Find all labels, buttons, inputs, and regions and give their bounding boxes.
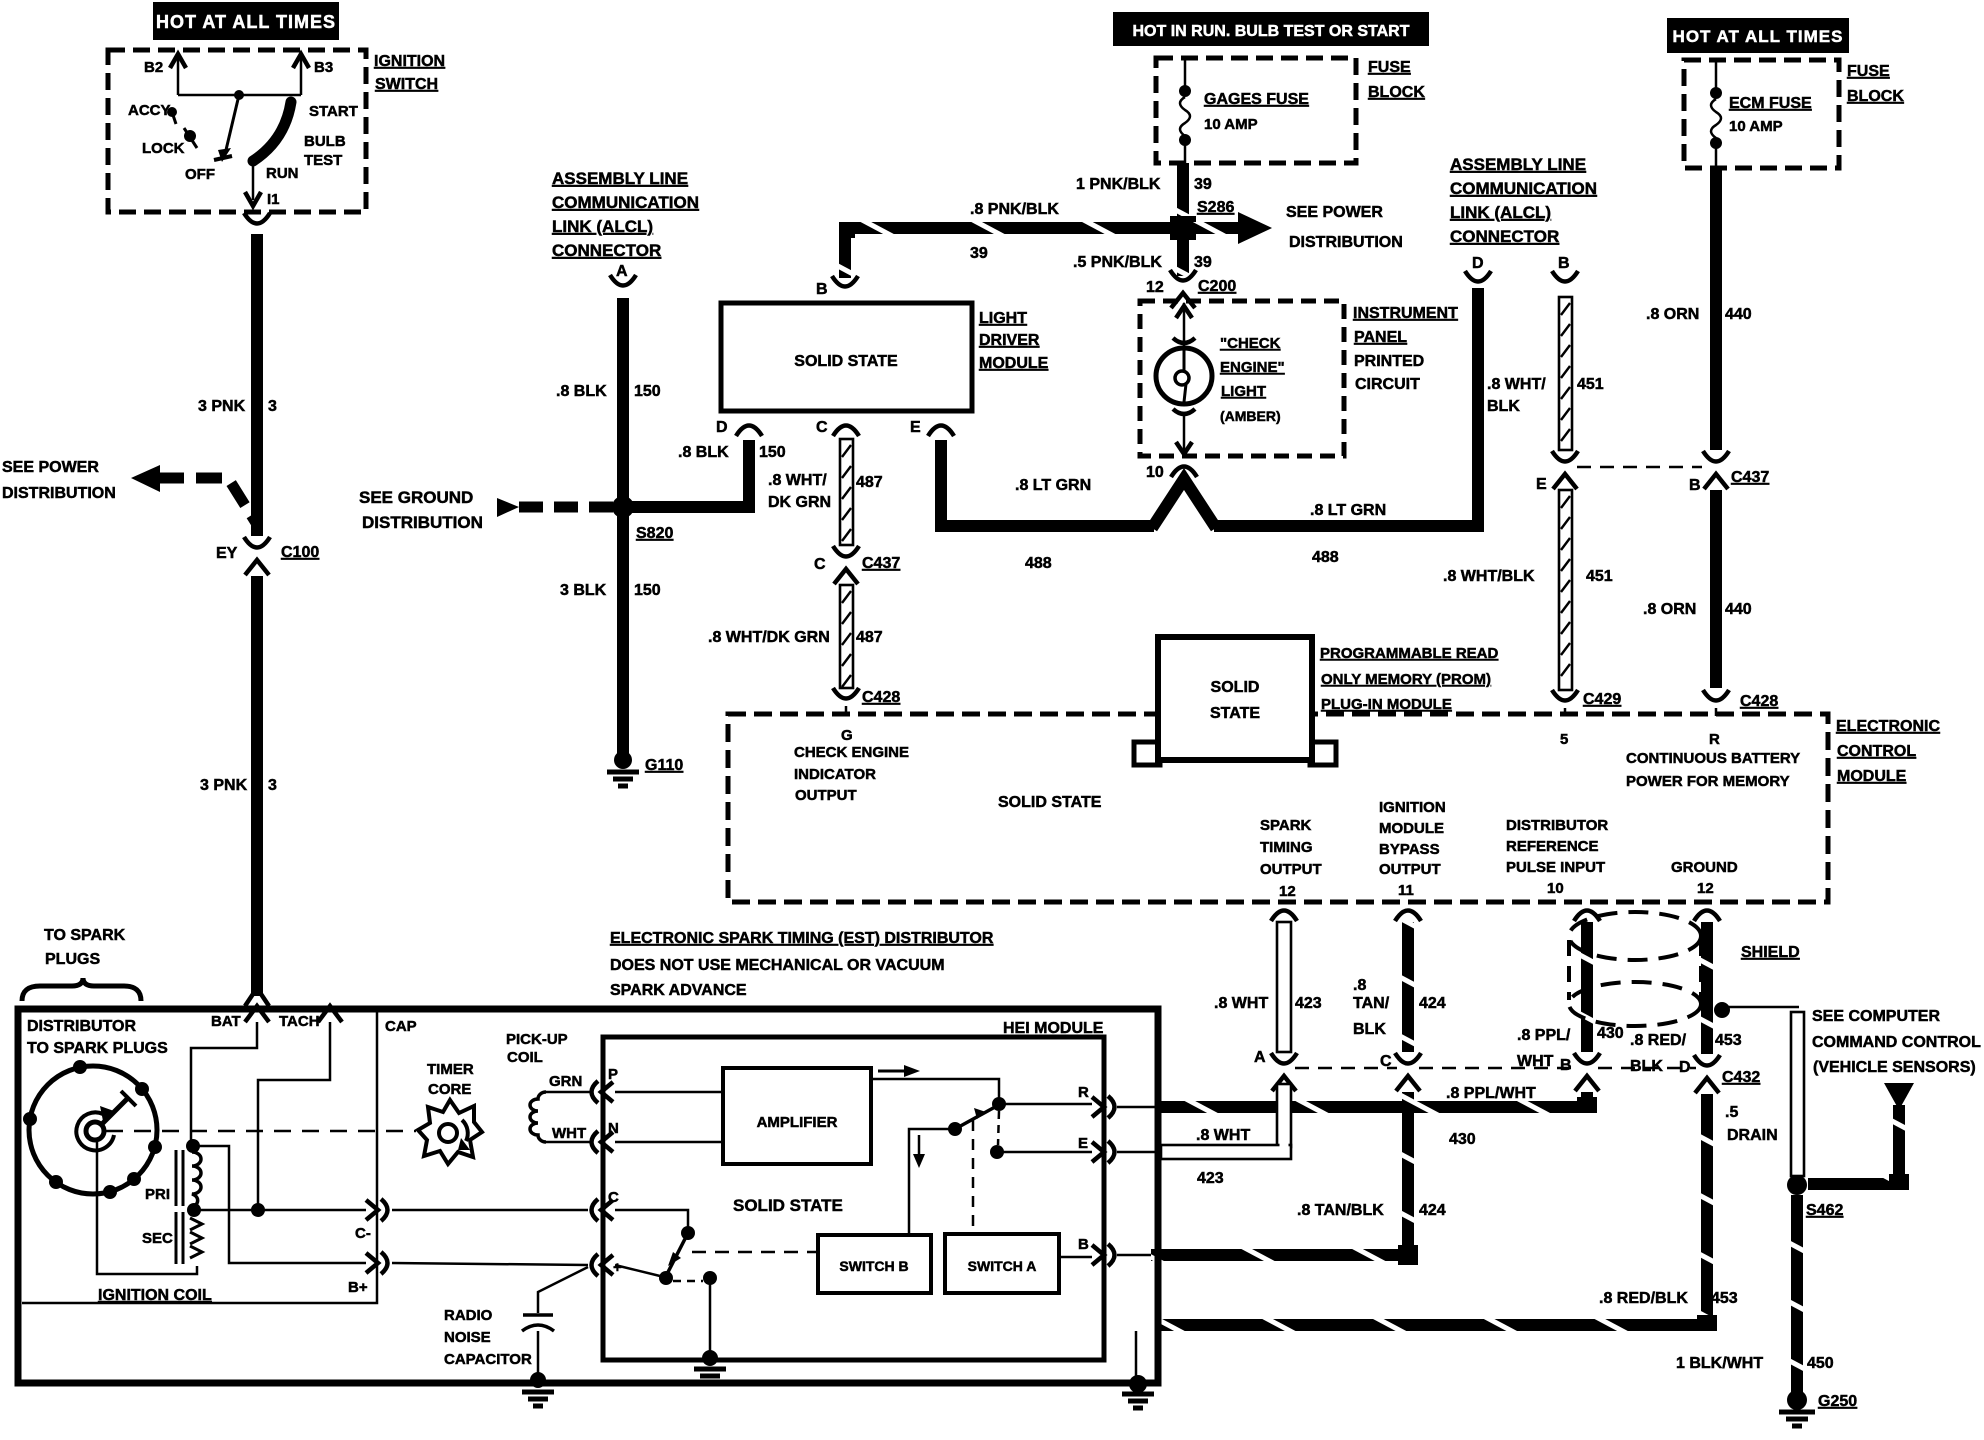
svg-text:HOT IN RUN. BULB TEST OR START: HOT IN RUN. BULB TEST OR START	[1132, 23, 1409, 40]
svg-text:"CHECK: "CHECK	[1220, 335, 1281, 352]
wire .8 PPL/WHT circuit 430 (B to HEI R)	[1581, 1092, 1593, 1113]
wire E contact to E pin	[1002, 1151, 1092, 1154]
wire 3 PNK circuit 3 (ignition to C100)	[251, 234, 263, 536]
connector pin A	[610, 275, 636, 286]
svg-text:3: 3	[268, 398, 277, 415]
connector C100	[244, 537, 270, 548]
svg-text:.8 RED/BLK: .8 RED/BLK	[1599, 1290, 1688, 1307]
svg-text:SOLID STATE: SOLID STATE	[733, 1196, 843, 1215]
svg-text:(VEHICLE SENSORS): (VEHICLE SENSORS)	[1813, 1059, 1976, 1076]
wire S820 to D-pin riser	[623, 440, 749, 507]
svg-text:BLK: BLK	[1353, 1021, 1386, 1038]
svg-text:TO SPARK: TO SPARK	[44, 927, 126, 944]
svg-text:TO SPARK PLUGS: TO SPARK PLUGS	[27, 1040, 168, 1057]
svg-text:B3: B3	[314, 59, 333, 76]
svg-text:TIMING: TIMING	[1260, 839, 1313, 856]
connector C437 pair	[1552, 451, 1578, 462]
svg-text:PULSE INPUT: PULSE INPUT	[1506, 859, 1605, 876]
fuse ECM FUSE 10 AMP symbol	[1715, 60, 1718, 88]
dashed blade to switch B	[692, 1251, 816, 1254]
svg-text:BLOCK: BLOCK	[1847, 88, 1904, 105]
svg-text:B: B	[1689, 477, 1701, 494]
switch arc START-RUN	[253, 102, 291, 161]
wire .8 BLK circuit 150 (A to S820)	[617, 298, 629, 507]
svg-text:.8: .8	[1353, 977, 1366, 994]
wire .8 ORN circuit 440 (C437 to C428)	[1710, 490, 1722, 688]
wire .8 ORN circuit 440 (fuse to C437)	[1710, 168, 1722, 450]
svg-text:430: 430	[1597, 1025, 1624, 1042]
svg-text:.8 BLK: .8 BLK	[556, 383, 607, 400]
rotor arm	[101, 1098, 128, 1125]
svg-text:C: C	[816, 419, 828, 436]
svg-text:POWER FOR MEMORY: POWER FOR MEMORY	[1626, 773, 1790, 790]
svg-text:1 PNK/BLK: 1 PNK/BLK	[1076, 176, 1161, 193]
wire 488 V-split	[1152, 479, 1216, 528]
node R contact	[992, 1097, 1006, 1111]
node shield drain tap	[1714, 1002, 1730, 1018]
switch blade to OFF	[226, 95, 239, 150]
ground G110	[614, 751, 632, 769]
svg-text:WHT: WHT	[552, 1125, 586, 1142]
wire .5 DRAIN (shield to S462)	[1722, 1006, 1799, 1009]
svg-text:C429: C429	[1583, 691, 1621, 708]
svg-text:12: 12	[1697, 880, 1714, 897]
wire RUN to I1	[252, 161, 255, 200]
svg-text:BAT: BAT	[211, 1013, 241, 1030]
svg-text:HEI MODULE: HEI MODULE	[1003, 1020, 1104, 1037]
svg-text:10 AMP: 10 AMP	[1204, 116, 1258, 133]
svg-text:FUSE: FUSE	[1847, 63, 1890, 80]
wire 1 BLK/WHT circuit 450 (S462 to G250)	[1791, 1195, 1803, 1396]
svg-text:MODULE: MODULE	[979, 355, 1049, 372]
svg-text:GROUND: GROUND	[1671, 859, 1738, 876]
svg-text:BLOCK: BLOCK	[1368, 84, 1425, 101]
wire .8 LT GRN circuit 488 (lamp to ALCL D)	[1214, 288, 1478, 526]
svg-text:CAP: CAP	[385, 1018, 417, 1035]
svg-text:CORE: CORE	[428, 1081, 471, 1098]
connector C428 (487 wire)	[833, 688, 859, 699]
wire contact to HEI ground	[709, 1278, 712, 1357]
wire .8 LT GRN circuit 488 (E to lamp)	[941, 440, 1154, 526]
distributor cap contact 6	[49, 1175, 63, 1189]
wire .8 RED/BLK circuit 453 (D to distributor ground)	[1701, 1094, 1713, 1331]
ignition coil primary winding	[186, 1139, 200, 1153]
wire + pin to pivot	[615, 1265, 660, 1276]
svg-text:S286: S286	[1197, 199, 1234, 216]
svg-text:10 AMP: 10 AMP	[1729, 118, 1783, 135]
PROM module box	[1134, 742, 1160, 765]
node switch pivot	[948, 1122, 962, 1136]
svg-text:SWITCH B: SWITCH B	[839, 1258, 908, 1274]
svg-text:11: 11	[1398, 882, 1414, 899]
svg-text:10: 10	[1547, 880, 1564, 897]
pin 12 connector (ground)	[1694, 911, 1720, 922]
pin B+ connector	[366, 1253, 378, 1273]
svg-text:ACCY: ACCY	[128, 102, 171, 119]
svg-text:BYPASS: BYPASS	[1379, 841, 1440, 858]
pin 12 connector (spark timing)	[1271, 911, 1297, 922]
svg-text:B: B	[1558, 255, 1570, 272]
pin 10 connector (ref pulse input)	[1574, 911, 1600, 922]
wire TACH to coil primary -	[258, 1022, 330, 1206]
svg-text:.8 WHT/DK GRN: .8 WHT/DK GRN	[708, 629, 830, 646]
dashed contact link	[673, 1280, 703, 1283]
svg-text:451: 451	[1586, 568, 1613, 585]
svg-text:D: D	[1472, 255, 1484, 272]
svg-text:LIGHT: LIGHT	[1221, 383, 1266, 400]
svg-text:PLUGS: PLUGS	[45, 951, 100, 968]
svg-text:PANEL: PANEL	[1354, 329, 1407, 346]
svg-text:3 BLK: 3 BLK	[560, 582, 607, 599]
svg-text:SEE COMPUTER: SEE COMPUTER	[1812, 1008, 1940, 1025]
svg-text:453: 453	[1711, 1290, 1738, 1307]
svg-text:INDICATOR: INDICATOR	[794, 766, 876, 783]
svg-text:ENGINE": ENGINE"	[1220, 359, 1285, 376]
stub arrow below pivot line	[918, 1135, 921, 1156]
wire R contact to R pin	[1004, 1103, 1092, 1106]
wire .8 TAN/BLK circuit 424 (C to HEI B)	[1402, 1092, 1414, 1261]
svg-text:440: 440	[1725, 601, 1752, 618]
svg-text:39: 39	[1194, 254, 1212, 271]
svg-text:SEE GROUND: SEE GROUND	[359, 488, 473, 507]
node S462	[1787, 1175, 1807, 1195]
ignition switch box (dashed)	[108, 50, 366, 212]
dashed link C432 connectors	[1295, 1067, 1397, 1070]
antenna to vehicle sensors	[1884, 1083, 1914, 1110]
amplifier box	[723, 1068, 871, 1164]
svg-text:12: 12	[1146, 279, 1164, 296]
fuse GAGES FUSE 10 AMP symbol	[1184, 58, 1187, 86]
wire .8 RED/BLK circuit 453 (pin12 to D)	[1701, 922, 1713, 1054]
wire 1 PNK/BLK circuit 39 (fuse to S286)	[1177, 163, 1189, 222]
C contact wiring	[615, 1210, 688, 1228]
male arrow at BAT pin	[245, 988, 269, 1006]
svg-text:RUN: RUN	[266, 165, 299, 182]
svg-text:12: 12	[1279, 883, 1296, 900]
dashed R-E contact link	[998, 1111, 999, 1145]
svg-text:TEST: TEST	[304, 152, 342, 169]
svg-text:G110: G110	[645, 757, 683, 774]
svg-text:CONNECTOR: CONNECTOR	[552, 241, 661, 260]
wire 440 stub into ECM	[1715, 708, 1718, 716]
svg-text:FUSE: FUSE	[1368, 59, 1411, 76]
svg-text:I1: I1	[267, 191, 280, 208]
svg-text:451: 451	[1577, 376, 1604, 393]
svg-text:E: E	[1536, 476, 1547, 493]
svg-text:.8 PPL/: .8 PPL/	[1517, 1027, 1571, 1044]
instrument panel box (dashed)	[1140, 301, 1344, 456]
wire P to amplifier	[615, 1091, 723, 1094]
svg-text:CONTINUOUS BATTERY: CONTINUOUS BATTERY	[1626, 750, 1800, 767]
svg-text:SHIELD: SHIELD	[1741, 944, 1800, 961]
connector C428 (440 wire)	[1703, 690, 1729, 701]
svg-text:ASSEMBLY LINE: ASSEMBLY LINE	[1450, 155, 1586, 174]
HEI module box	[603, 1037, 1104, 1360]
svg-text:DISTRIBUTION: DISTRIBUTION	[1289, 234, 1403, 251]
ground inside HEI (module case)	[702, 1350, 718, 1366]
connector C429	[1552, 690, 1578, 701]
wire 3 BLK circuit 150 (S820 to G110)	[617, 507, 629, 757]
svg-text:.5 PNK/BLK: .5 PNK/BLK	[1073, 254, 1162, 271]
wire .8 WHT circuit 423 (A to HEI E)	[1277, 1084, 1291, 1147]
svg-text:CHECK ENGINE: CHECK ENGINE	[794, 744, 909, 761]
svg-text:424: 424	[1419, 995, 1446, 1012]
svg-text:D: D	[716, 419, 728, 436]
svg-text:P: P	[608, 1066, 618, 1083]
see power distribution arrow (left)	[131, 465, 160, 492]
svg-text:BLK: BLK	[1487, 398, 1520, 415]
svg-text:.8 WHT/BLK: .8 WHT/BLK	[1443, 568, 1535, 585]
wire 487 stub into ECM	[845, 706, 848, 714]
svg-text:DK GRN: DK GRN	[768, 494, 831, 511]
wire switch A to B pin	[1059, 1256, 1092, 1259]
svg-text:SEE POWER: SEE POWER	[1286, 204, 1383, 221]
svg-text:39: 39	[1194, 176, 1212, 193]
svg-text:487: 487	[856, 474, 883, 491]
svg-text:C437: C437	[1731, 469, 1769, 486]
svg-text:B+: B+	[348, 1279, 368, 1296]
svg-text:MODULE: MODULE	[1379, 820, 1444, 837]
svg-text:C437: C437	[862, 555, 900, 572]
svg-text:ECM FUSE: ECM FUSE	[1729, 95, 1812, 112]
svg-text:EY: EY	[216, 545, 238, 562]
pin 11 connector (bypass)	[1395, 911, 1421, 922]
wire 451 stub into ECM	[1564, 708, 1567, 716]
svg-text:C428: C428	[862, 689, 900, 706]
svg-text:3 PNK: 3 PNK	[200, 777, 248, 794]
svg-text:PICK-UP: PICK-UP	[506, 1031, 568, 1048]
svg-text:STATE: STATE	[1210, 705, 1260, 722]
brace to spark plugs	[22, 978, 141, 1001]
timer core star	[418, 1100, 482, 1164]
svg-text:COMMAND CONTROL: COMMAND CONTROL	[1812, 1034, 1981, 1051]
connector at ignition switch output	[244, 213, 270, 224]
svg-text:C428: C428	[1740, 693, 1778, 710]
svg-text:SPARK ADVANCE: SPARK ADVANCE	[610, 982, 747, 999]
svg-text:B2: B2	[144, 59, 163, 76]
switch blade (pivot to R)	[955, 1107, 995, 1129]
wire to see power distribution arrow	[1192, 222, 1238, 234]
svg-text:PROGRAMMABLE READ: PROGRAMMABLE READ	[1320, 645, 1498, 662]
svg-text:B: B	[816, 281, 828, 298]
wire N to amplifier	[615, 1141, 723, 1144]
svg-text:NOISE: NOISE	[444, 1329, 491, 1346]
wire rotor to coil secondary	[97, 1140, 197, 1274]
svg-text:E: E	[1078, 1135, 1088, 1152]
dashed line to switch A	[972, 1120, 975, 1233]
svg-text:TAN/: TAN/	[1353, 995, 1390, 1012]
svg-text:.5: .5	[1725, 1104, 1738, 1121]
banner HOT IN RUN BULB TEST OR START	[1113, 12, 1429, 46]
svg-text:150: 150	[759, 444, 786, 461]
wire B+ to HEI + pin	[392, 1263, 588, 1265]
ignition coil core	[175, 1150, 178, 1206]
svg-text:IGNITION: IGNITION	[1379, 799, 1446, 816]
light driver module box	[721, 303, 972, 411]
banner HOT AT ALL TIMES (left)	[153, 2, 339, 40]
wire + to radio noise capacitor	[538, 1267, 588, 1313]
distributor cap contact 7	[23, 1112, 37, 1126]
svg-text:G: G	[841, 727, 853, 744]
svg-text:C-: C-	[355, 1225, 371, 1242]
distributor cap contact 1	[73, 1060, 87, 1074]
svg-text:LINK (ALCL): LINK (ALCL)	[552, 217, 653, 236]
electronic control module box (dashed)	[728, 714, 1828, 902]
svg-text:TIMER: TIMER	[427, 1061, 474, 1078]
distributor assembly box	[18, 1009, 1158, 1383]
fuse block box (dashed, ECM)	[1684, 60, 1839, 168]
svg-text:OFF: OFF	[185, 166, 215, 183]
svg-text:5: 5	[1560, 731, 1568, 748]
svg-text:.8 WHT: .8 WHT	[1196, 1127, 1250, 1144]
svg-text:.8 PNK/BLK: .8 PNK/BLK	[970, 201, 1059, 218]
node S820	[612, 496, 634, 518]
svg-text:A: A	[616, 263, 628, 280]
svg-text:.8 TAN/BLK: .8 TAN/BLK	[1297, 1202, 1384, 1219]
svg-text:LIGHT: LIGHT	[979, 310, 1027, 327]
node switch common junction	[234, 90, 244, 100]
svg-text:150: 150	[634, 582, 661, 599]
svg-text:440: 440	[1725, 306, 1752, 323]
svg-text:.8 WHT/: .8 WHT/	[768, 472, 827, 489]
svg-text:SOLID STATE: SOLID STATE	[998, 794, 1102, 811]
svg-text:START: START	[309, 103, 358, 120]
svg-text:COIL: COIL	[507, 1049, 543, 1066]
svg-text:SOLID: SOLID	[1211, 679, 1260, 696]
svg-text:SWITCH: SWITCH	[375, 76, 438, 93]
svg-text:DISTRIBUTION: DISTRIBUTION	[2, 485, 116, 502]
wire C- to HEI C pin	[392, 1209, 588, 1212]
distributor cap contact 5	[103, 1185, 117, 1199]
svg-text:487: 487	[856, 629, 883, 646]
svg-text:SEE POWER: SEE POWER	[2, 459, 99, 476]
wire .5 PNK/BLK circuit 39 (S286 to C200)	[1177, 238, 1189, 276]
wire coil + to B+ pin	[193, 1146, 366, 1263]
svg-text:CAPACITOR: CAPACITOR	[444, 1351, 532, 1368]
ground at capacitor	[530, 1372, 546, 1388]
pin B2 arrow	[177, 58, 180, 95]
svg-text:.8 BLK: .8 BLK	[678, 444, 729, 461]
svg-text:SOLID STATE: SOLID STATE	[794, 353, 898, 370]
svg-text:PLUG-IN MODULE: PLUG-IN MODULE	[1321, 696, 1452, 713]
svg-text:1 BLK/WHT: 1 BLK/WHT	[1676, 1355, 1763, 1372]
svg-text:OUTPUT: OUTPUT	[795, 787, 857, 804]
svg-text:CIRCUIT: CIRCUIT	[1355, 376, 1420, 393]
distributor cap contact 2	[135, 1082, 149, 1096]
svg-text:B: B	[1560, 1057, 1572, 1074]
svg-text:OUTPUT: OUTPUT	[1260, 861, 1322, 878]
svg-text:.8 ORN: .8 ORN	[1643, 601, 1696, 618]
fuse block box (dashed, gages)	[1156, 58, 1356, 163]
svg-text:C: C	[814, 556, 826, 573]
svg-text:(AMBER): (AMBER)	[1220, 408, 1281, 424]
svg-text:GAGES FUSE: GAGES FUSE	[1204, 91, 1309, 108]
distributor cap contact 4	[127, 1172, 141, 1186]
wire .8 WHT/DK GRN circuit 487 (C437 to C428)	[840, 585, 853, 688]
svg-text:OUTPUT: OUTPUT	[1379, 861, 1441, 878]
distributor cap circle	[29, 1066, 157, 1194]
wire coil - to C- pin	[194, 1209, 366, 1212]
wire BAT to coil primary +	[191, 1022, 257, 1140]
svg-text:B: B	[1078, 1236, 1089, 1253]
switch blade (C to +)	[666, 1233, 688, 1276]
wire .8 PPL/WHT circuit 430 (pin10 to B)	[1581, 922, 1593, 1052]
banner HOT AT ALL TIMES (right)	[1667, 18, 1849, 53]
see ground distribution arrow	[497, 498, 519, 517]
svg-text:DRIVER: DRIVER	[979, 332, 1040, 349]
pin B3 arrow	[300, 58, 303, 95]
svg-text:453: 453	[1715, 1032, 1742, 1049]
svg-text:R: R	[1078, 1084, 1089, 1101]
svg-text:ELECTRONIC: ELECTRONIC	[1836, 718, 1940, 735]
radio noise capacitor	[523, 1313, 553, 1317]
svg-text:IGNITION: IGNITION	[374, 53, 445, 70]
svg-text:LINK (ALCL): LINK (ALCL)	[1450, 203, 1551, 222]
switch B box	[818, 1235, 931, 1293]
svg-text:423: 423	[1295, 995, 1322, 1012]
svg-text:3: 3	[268, 777, 277, 794]
dashed rotor shaft line	[106, 1130, 416, 1133]
connector C200	[1170, 270, 1196, 281]
rotor	[86, 1122, 104, 1140]
wire pivot to switch B	[909, 1129, 955, 1235]
svg-text:430: 430	[1449, 1131, 1476, 1148]
pick-up coil winding	[530, 1092, 546, 1142]
svg-text:C100: C100	[281, 544, 319, 561]
ignition coil secondary winding	[190, 1218, 202, 1258]
svg-text:ASSEMBLY LINE: ASSEMBLY LINE	[552, 169, 688, 188]
svg-text:39: 39	[970, 245, 988, 262]
svg-text:GRN: GRN	[549, 1073, 582, 1090]
wire .8 WHT circuit 423 (pin12 to A)	[1277, 922, 1291, 1052]
svg-text:R: R	[1709, 731, 1720, 748]
wire amplifier to switch R contact	[871, 1079, 999, 1098]
svg-text:.8 PPL/WHT: .8 PPL/WHT	[1446, 1085, 1536, 1102]
svg-text:SWITCH A: SWITCH A	[968, 1258, 1037, 1274]
svg-text:.8 LT GRN: .8 LT GRN	[1310, 502, 1386, 519]
wire .8 WHT/BLK circuit 451 (B to C437)	[1559, 297, 1572, 450]
check engine bulb	[1156, 348, 1212, 404]
connector C437 (487 wire)	[833, 546, 859, 557]
svg-text:488: 488	[1312, 549, 1339, 566]
svg-text:.8 WHT/: .8 WHT/	[1487, 376, 1546, 393]
wire bulb to pin 10	[1173, 409, 1195, 414]
svg-text:DISTRIBUTOR: DISTRIBUTOR	[1506, 817, 1608, 834]
svg-text:DISTRIBUTOR: DISTRIBUTOR	[27, 1018, 136, 1035]
wire .8 WHT/BLK circuit 451 (C437 to C429)	[1559, 490, 1572, 690]
svg-text:A: A	[1254, 1049, 1266, 1066]
shield (dashed cylinder)	[1569, 912, 1701, 960]
svg-text:C200: C200	[1198, 278, 1236, 295]
node E contact	[990, 1145, 1004, 1159]
svg-text:BLK: BLK	[1630, 1058, 1663, 1075]
svg-text:BULB: BULB	[304, 133, 346, 150]
svg-text:10: 10	[1146, 464, 1164, 481]
svg-text:CONNECTOR: CONNECTOR	[1450, 227, 1559, 246]
distributor cap contact 3	[148, 1140, 162, 1154]
svg-text:450: 450	[1807, 1355, 1834, 1372]
node ground-side contact	[703, 1271, 717, 1285]
svg-text:DRAIN: DRAIN	[1727, 1127, 1778, 1144]
svg-text:HOT AT ALL TIMES: HOT AT ALL TIMES	[1673, 27, 1844, 46]
svg-text:150: 150	[634, 383, 661, 400]
node + side contact	[659, 1271, 673, 1285]
ground at distributor (453)	[1129, 1375, 1147, 1393]
svg-text:S820: S820	[636, 525, 673, 542]
svg-text:.8 ORN: .8 ORN	[1646, 306, 1699, 323]
svg-text:CONTROL: CONTROL	[1837, 743, 1916, 760]
svg-text:MODULE: MODULE	[1837, 768, 1907, 785]
